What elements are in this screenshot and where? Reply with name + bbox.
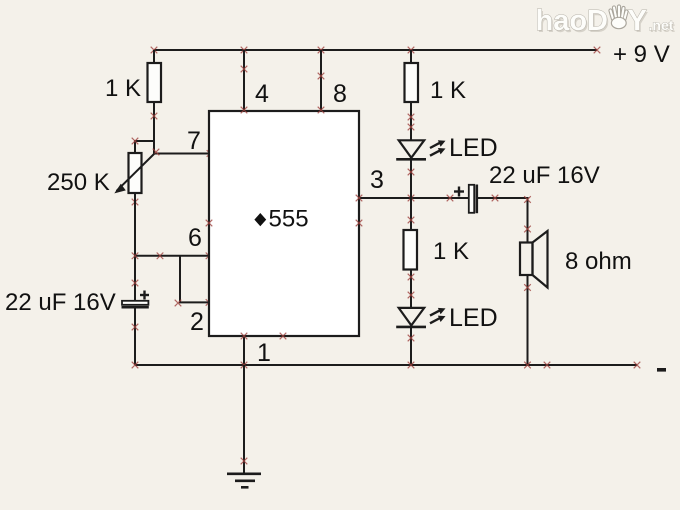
- svg-text:555: 555: [269, 206, 309, 233]
- svg-text:.net: .net: [649, 17, 674, 33]
- junction pin4 mid: [241, 66, 248, 73]
- svg-text:1 K: 1 K: [433, 238, 469, 265]
- junction top rail at R2: [408, 47, 415, 54]
- junction IC bottom mid: [280, 333, 287, 340]
- junction bottom rail mid: [544, 362, 551, 369]
- LED D2 light arrows: [430, 308, 446, 323]
- wire C2 to speaker: [478, 198, 528, 243]
- svg-text:1 K: 1 K: [105, 75, 141, 102]
- junction pin8 at IC: [318, 107, 325, 114]
- junction pin2 corner: [175, 300, 182, 307]
- svg-text:1: 1: [257, 339, 271, 367]
- junction below R2 b: [408, 124, 415, 131]
- junction top rail at R1: [151, 47, 158, 54]
- wire pin 8: [320, 50, 322, 111]
- junction above pin3 wire: [408, 169, 415, 176]
- wire pin 2 jog: [180, 256, 209, 303]
- IC label diamond: [254, 213, 266, 226]
- wire R3 to LED D2: [410, 270, 412, 308]
- junction bottom rail at pin1: [241, 362, 248, 369]
- wire LED D1 to pin3 junction: [410, 159, 412, 230]
- LED D1 light arrows: [430, 140, 446, 155]
- junction pin7 at corner: [153, 149, 160, 156]
- svg-text:250 K: 250 K: [47, 169, 110, 196]
- wire pin 3: [359, 197, 469, 199]
- junction top rail right end: [594, 47, 601, 54]
- capacitor C2 right plate: [475, 185, 478, 214]
- junction IC right mid: [356, 220, 363, 227]
- svg-text:7: 7: [187, 127, 201, 155]
- wire to ground: [243, 365, 245, 473]
- potentiometer wiper arrow: [114, 154, 154, 194]
- junction jog corner: [132, 138, 139, 145]
- junction above C1: [132, 280, 139, 287]
- svg-text:+ 9 V: + 9 V: [613, 41, 670, 68]
- logo haoDIY.net: [536, 5, 676, 39]
- junction right of C2: [492, 195, 499, 202]
- top +9V power rail wire: [154, 49, 597, 51]
- wire pin 4: [243, 50, 245, 111]
- capacitor C1 bottom plate: [122, 306, 149, 309]
- junction pin6 tee: [132, 253, 139, 260]
- svg-text:haoD: haoD: [536, 5, 609, 37]
- wire speaker to bottom rail: [527, 275, 529, 365]
- wire jog to potentiometer: [135, 141, 154, 153]
- junction bottom rail at LED branch: [408, 362, 415, 369]
- wire pin 7: [154, 153, 209, 155]
- wire pin 6: [135, 255, 209, 257]
- wire R1 bottom to pin7 corner: [153, 102, 155, 154]
- bottom rail wire: [135, 364, 637, 366]
- wire rail to R1: [153, 50, 155, 63]
- svg-text:8 ohm: 8 ohm: [565, 248, 632, 275]
- LED D1: [396, 140, 426, 159]
- wire pin 1: [243, 336, 245, 365]
- junction below LED D2: [408, 335, 415, 342]
- junction pin3 at IC: [356, 195, 363, 202]
- wire potentiometer to C1: [134, 193, 136, 301]
- junction speaker bottom: [524, 284, 531, 291]
- potentiometer RP1 250K body: [129, 153, 142, 193]
- junction top rail at pin4: [241, 47, 248, 54]
- junction pin1 at IC: [241, 333, 248, 340]
- junction pin8 mid: [318, 73, 325, 80]
- node minus label: [657, 368, 666, 372]
- junction above ground: [241, 458, 248, 465]
- LED D2: [396, 308, 426, 327]
- junction below pin3 wire: [408, 217, 415, 224]
- resistor R3 1K: [404, 230, 418, 270]
- wire rail to R2: [410, 50, 412, 63]
- junction corner above speaker: [524, 196, 531, 203]
- junction below C1: [132, 324, 139, 331]
- junction pin6 at IC: [206, 253, 213, 260]
- svg-text:Y: Y: [628, 5, 647, 37]
- svg-text:1 K: 1 K: [430, 77, 466, 104]
- junction pin3 at LED branch: [408, 195, 415, 202]
- junction speaker top: [524, 226, 531, 233]
- junction bottom rail right end: [634, 362, 641, 369]
- junction IC left mid: [206, 220, 213, 227]
- junction bottom rail left end: [132, 362, 139, 369]
- junction pin2 at IC: [206, 299, 213, 306]
- junction pin4 at IC: [241, 107, 248, 114]
- capacitor C2 plus sign: [454, 187, 464, 197]
- junction below R3 b: [408, 292, 415, 299]
- junction below potentiometer: [132, 199, 139, 206]
- svg-text:8: 8: [333, 80, 347, 108]
- resistor R2 1K: [405, 63, 419, 102]
- op-amp U1 555 IC body: [209, 111, 359, 336]
- junction bottom rail at speaker: [524, 362, 531, 369]
- junction pin3 mid: [447, 195, 454, 202]
- svg-text:6: 6: [188, 224, 202, 252]
- svg-text:LED: LED: [449, 304, 498, 332]
- junction pin6 mid: [157, 253, 164, 260]
- junction top rail at pin8: [318, 47, 325, 54]
- svg-text:22 uF 16V: 22 uF 16V: [5, 289, 116, 316]
- ground: [227, 474, 261, 488]
- svg-text:2: 2: [190, 308, 204, 336]
- svg-text:22 uF 16V: 22 uF 16V: [489, 162, 600, 189]
- junction pin7 at IC: [207, 150, 214, 157]
- svg-text:3: 3: [370, 166, 384, 194]
- junction below R3 a: [408, 274, 415, 281]
- junction below R2 a: [408, 114, 415, 121]
- resistor R1 1K: [148, 63, 162, 102]
- capacitor C1 top plate: [122, 301, 148, 305]
- svg-text:LED: LED: [449, 134, 498, 162]
- wire LED D2 to bottom rail: [410, 327, 412, 365]
- capacitor C1 22uF 16V plus sign: [140, 291, 149, 300]
- capacitor C2 left plate: [469, 185, 474, 213]
- wire R2 to LED D1: [410, 102, 412, 140]
- junction below R1: [151, 113, 158, 120]
- speaker LS1: [520, 231, 548, 288]
- wire C1 to bottom rail: [134, 309, 136, 366]
- svg-text:4: 4: [255, 80, 269, 108]
